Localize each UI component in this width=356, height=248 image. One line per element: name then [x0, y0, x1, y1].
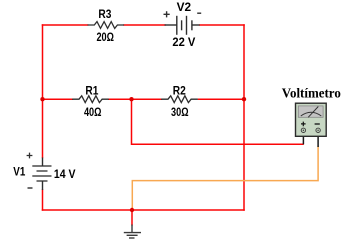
svg-text:R3: R3	[98, 7, 111, 21]
svg-text:20Ω: 20Ω	[96, 30, 114, 44]
svg-text:22 V: 22 V	[172, 35, 195, 49]
svg-text:Voltímetro: Voltímetro	[282, 86, 341, 101]
svg-text:V1: V1	[13, 165, 25, 179]
svg-text:14 V: 14 V	[54, 167, 76, 181]
svg-text:R2: R2	[173, 83, 186, 97]
svg-text:V2: V2	[177, 0, 192, 14]
svg-text:30Ω: 30Ω	[171, 105, 189, 119]
svg-text:R1: R1	[85, 83, 98, 97]
svg-text:40Ω: 40Ω	[84, 105, 102, 119]
